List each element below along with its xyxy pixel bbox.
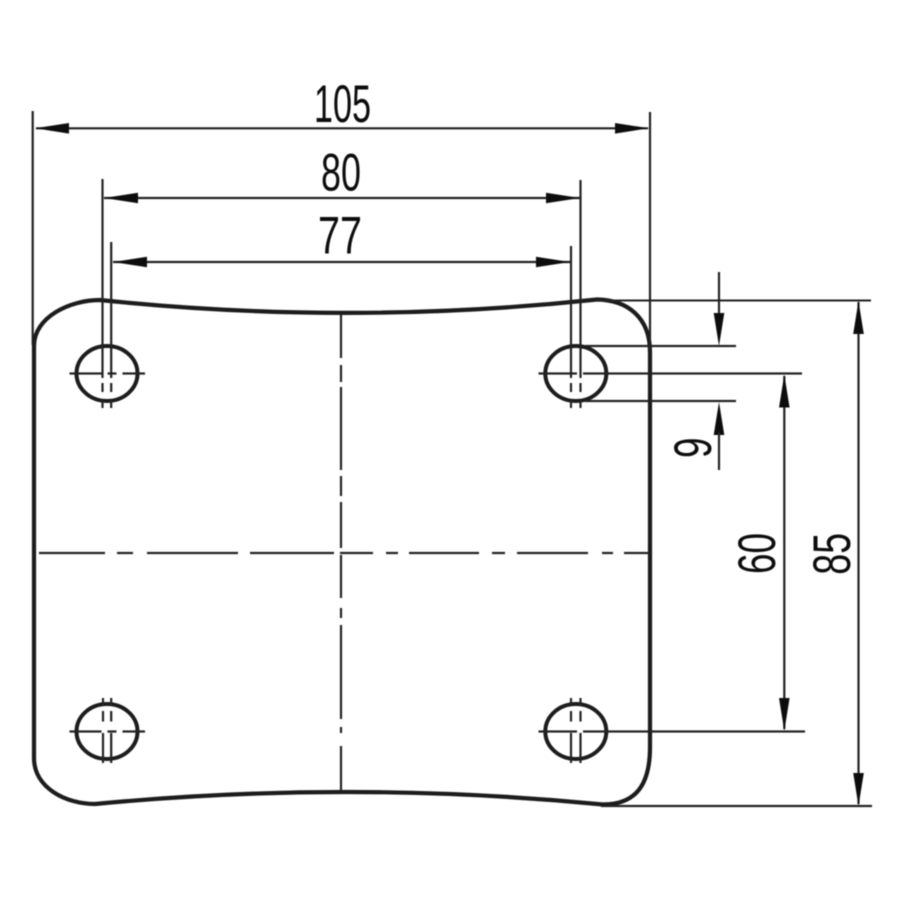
hole top-right [545, 346, 606, 401]
arrow 105 right [615, 123, 649, 134]
hole center mark TR horizontal + 60-dim reference [539, 372, 803, 374]
reference line hole bottom [585, 400, 736, 402]
hole center mark TL horizontal [70, 372, 146, 374]
dimension line 85 [857, 302, 859, 804]
extension line 77 right through TR hole [570, 246, 572, 408]
hole top-left [77, 346, 138, 401]
label 60 [738, 534, 776, 572]
hole center mark BR horizontal + 60-dim reference [539, 730, 806, 732]
arrow 85 down [853, 773, 864, 806]
reference line plate top right [595, 300, 871, 302]
reference line hole top [585, 345, 736, 347]
arrow 77 right [536, 257, 570, 268]
extension line 105 right [649, 112, 651, 350]
reference line 85 bottom [601, 805, 872, 807]
dimension line 60 [783, 376, 785, 729]
label 105 [317, 85, 370, 123]
label 80 [323, 154, 360, 192]
arrow 80 left [104, 193, 138, 204]
arrow 60 up [779, 375, 790, 408]
extension line 77 left through TL hole [110, 242, 112, 408]
dimension line 105 [36, 127, 648, 129]
extension line 80 left through TL hole [101, 179, 103, 408]
center mark BR vertical ticks [571, 698, 581, 763]
plate outline [34, 300, 650, 805]
arrow 80 right [546, 193, 580, 204]
arrow 85 up [853, 301, 864, 334]
center mark BL vertical ticks [103, 698, 111, 763]
extension line 105 left [32, 111, 34, 345]
extension line 80 right through TR hole [579, 180, 581, 408]
dimension 9 upper stem [718, 272, 720, 316]
arrow 9 down [714, 313, 725, 346]
arrow 60 down [779, 698, 790, 731]
arrow 77 left [113, 257, 147, 268]
dimension 9 lower stem [718, 432, 720, 470]
hole center mark BL horizontal [70, 730, 146, 732]
arrow 9 up [714, 402, 725, 435]
hole bottom-left [77, 704, 138, 759]
label 77 [320, 217, 360, 254]
dimension line 77 [113, 261, 570, 263]
hole bottom-right [545, 704, 606, 759]
dimension line 80 [104, 197, 580, 199]
label 85 [813, 535, 851, 574]
arrow 105 left [35, 123, 69, 134]
center line vertical [340, 315, 342, 792]
label 9 [674, 439, 712, 456]
center line horizontal [39, 552, 650, 554]
